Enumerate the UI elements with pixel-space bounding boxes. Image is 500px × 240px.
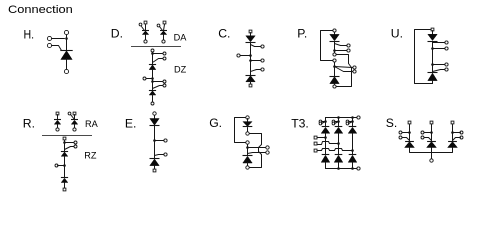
wire T3 branch2 c1 lead — [335, 121, 339, 123]
wire DZ node3 to R3 — [153, 81, 163, 83]
diode E D2 (cathode up) — [150, 158, 160, 160]
wire C bottom lead — [250, 82, 252, 84]
wire DZ left to node2 — [147, 78, 153, 80]
wire DZ node1 to R1 — [153, 53, 163, 55]
terminal DZ right-1 — [163, 52, 166, 55]
diode T3 top-1 (cathode up) — [322, 126, 330, 128]
separator line R — [42, 135, 92, 137]
wire S1 side-2 lead — [403, 138, 410, 141]
wire RZ node1 to R1 — [65, 142, 74, 144]
wire P top lead — [334, 33, 336, 35]
diode RZ1 (cathode up) — [61, 151, 68, 153]
terminal T3 bottom-right — [357, 167, 360, 170]
terminal DZ right-3 — [163, 80, 166, 83]
diode DZ1 (cathode up) — [149, 64, 156, 66]
terminal S2 top — [430, 121, 433, 124]
wire U node2 to right-3 — [433, 64, 446, 66]
wire S2 side-1 lead — [425, 132, 432, 134]
diode RA2 (cathode up) — [71, 119, 78, 121]
node DZ-1 — [151, 52, 154, 55]
wire T3 branch3 upper — [352, 118, 354, 127]
terminal C right-1 — [261, 45, 264, 48]
terminal RZ bottom — [63, 188, 66, 191]
wire T3 ac3 to branch3 (hops over branch1,2) — [318, 149, 353, 151]
svg-text:DA: DA — [174, 32, 188, 42]
node C-2 — [249, 59, 252, 62]
terminal P right-1 — [347, 44, 350, 47]
node U-2 — [431, 63, 434, 66]
wire DA1 diag lead — [142, 27, 145, 31]
wire P node2 to right-3 — [335, 67, 353, 68]
wire T3 top rail — [326, 117, 357, 119]
wire DA1 anode lead — [145, 35, 147, 41]
node T3 rail-b3 — [351, 116, 354, 119]
node DZ-2 — [151, 77, 154, 80]
terminal DA2 top — [163, 21, 166, 24]
wire H left-2 to cathode bar — [52, 46, 62, 51]
diode P D1 (cathode down) — [330, 34, 339, 40]
node P-1 — [333, 49, 336, 52]
wire S1 upper — [409, 125, 411, 141]
svg-text:C.: C. — [218, 27, 230, 41]
terminal T3 top-right — [357, 116, 360, 119]
wire U top lead — [432, 31, 434, 35]
wire P anode lead — [334, 84, 336, 85]
node S1 — [408, 131, 411, 134]
wire U left bracket — [415, 30, 433, 84]
svg-text:E.: E. — [125, 116, 137, 130]
wire RA2 diag lead — [71, 115, 75, 120]
terminal T3 branch1 c1 — [319, 120, 322, 123]
terminal P mid-1 — [333, 53, 336, 56]
wire G left bracket — [235, 118, 246, 143]
wire T3 branch2 upper — [338, 118, 340, 127]
node H junction — [65, 37, 68, 40]
node E-1 — [153, 139, 156, 142]
wire C to right-1 — [251, 45, 261, 47]
terminal RA1 top — [56, 112, 59, 115]
diode RZ2 (cathode up) — [61, 177, 68, 179]
terminal RA2 top — [73, 112, 76, 115]
wire DA1 top lead — [145, 25, 147, 31]
wire G lower segment — [247, 145, 249, 156]
svg-text:RZ: RZ — [84, 151, 97, 161]
wire C bar2 to right-3 — [251, 70, 261, 72]
wire C node2 to right-2 — [251, 60, 261, 62]
wire H vertical top — [66, 35, 68, 51]
terminal U top — [431, 28, 434, 31]
terminal S3 side-2 — [460, 136, 463, 139]
node T3 rail2-b3 — [351, 167, 354, 170]
wire H anode to bottom — [66, 59, 68, 70]
svg-text:U.: U. — [391, 27, 403, 41]
terminal DA1 diag — [139, 23, 142, 26]
diode G D2 (cathode up) — [243, 155, 253, 157]
terminal C right-3 — [261, 68, 264, 71]
wire E node to right-1 — [155, 140, 165, 142]
node T3 mid-3 — [351, 149, 354, 152]
terminal RZ top — [63, 137, 66, 140]
wire T3 ac2 to branch2 (hop over branch1) — [318, 142, 339, 145]
wire T3 ac1 to branch1 — [318, 137, 326, 139]
terminal U right-1 — [445, 41, 448, 44]
terminal S2 side-2 — [421, 136, 424, 139]
wire U node1 to right-2 — [433, 48, 446, 50]
terminal G mid-2 — [246, 141, 249, 144]
diode P D2 (cathode up) — [330, 76, 340, 78]
wire RZ middle segment — [64, 157, 66, 178]
diode S3 (cathode up) — [448, 141, 457, 143]
wire S3 upper — [452, 125, 454, 141]
wire S2 upper — [431, 125, 433, 141]
terminal G right-1 — [266, 146, 269, 149]
wire U bottom lead — [432, 81, 434, 84]
terminal T3 ac-1 — [314, 136, 317, 139]
node T3 rail2-b2 — [337, 167, 340, 170]
terminal S1 side-1 — [399, 131, 402, 134]
terminal RZ left — [55, 164, 58, 167]
separator line D — [131, 46, 181, 48]
wire P left bracket — [321, 31, 333, 61]
wire DZ bar2 to R4 — [153, 86, 163, 89]
wire RA1 anode lead — [57, 125, 59, 129]
wire S3 lower — [452, 148, 454, 153]
wire G right bracket — [250, 134, 262, 168]
terminal T3 branch1 c2 — [319, 122, 322, 125]
terminal S2 side-1 — [421, 131, 424, 134]
wire E top lead — [154, 116, 156, 119]
terminal T3 ac-3 — [314, 149, 317, 152]
node T3 mid-2 — [337, 142, 340, 145]
terminal S3 top — [451, 121, 454, 124]
wire T3 bottom rail — [326, 168, 357, 170]
wire RA1 top lead — [57, 115, 59, 120]
svg-text:S.: S. — [386, 116, 398, 130]
wire RZ bar to R2 — [65, 147, 75, 150]
terminal DA1 bottom — [144, 40, 147, 43]
svg-text:RA: RA — [85, 119, 99, 129]
wire T3 branch3 c2 lead — [349, 122, 353, 124]
wire C left to node — [241, 55, 251, 57]
wire G top lead — [247, 119, 249, 122]
svg-text:D.: D. — [111, 27, 123, 41]
wire P node2 to right-4 — [335, 67, 353, 72]
diode S1 (cathode up) — [405, 141, 414, 143]
terminal U right-3 — [445, 63, 448, 66]
wire T3 branch2 middle — [338, 134, 340, 155]
node S3 — [451, 131, 454, 134]
wire P to right-1 — [335, 44, 348, 46]
terminal P right-3 — [353, 66, 356, 69]
wire DZ bottom segment — [152, 95, 154, 102]
terminal RZ right-1 — [74, 141, 77, 144]
diode T3 top-2 (cathode up) — [335, 126, 343, 128]
diode S2 (cathode up) — [427, 141, 436, 143]
terminal DZ right-2 — [163, 57, 166, 60]
wire G D1 cathode lead — [247, 128, 249, 132]
diode T3 bottom-2 (cathode up) — [335, 154, 343, 156]
node RZ-1 — [63, 141, 66, 144]
terminal H top — [64, 30, 68, 34]
wire S3 side-1 lead — [453, 132, 461, 134]
terminal RA2 diag — [68, 112, 71, 115]
svg-text:R.: R. — [23, 117, 35, 131]
wire T3 branch1 c1 lead — [322, 121, 326, 123]
wire S1 lower — [409, 148, 411, 153]
diode C D2 (cathode up) — [246, 75, 256, 77]
node T3 branch3 tap — [351, 120, 354, 123]
wire P node1 to right-2 — [335, 50, 348, 52]
diode C D1 (cathode down) — [246, 36, 255, 42]
node S2 — [430, 131, 433, 134]
terminal S1 side-2 — [399, 136, 402, 139]
diode G D1 (cathode down) — [243, 122, 252, 127]
terminal E bottom — [153, 169, 156, 172]
wire RZ bottom segment — [64, 183, 66, 189]
wire RZ left to node2 — [58, 165, 65, 167]
diode H D1 (cathode up) — [60, 50, 72, 52]
terminal RA1 bottom — [56, 128, 59, 131]
terminal P mid-2 — [333, 59, 336, 62]
terminal T3 branch2 c1 — [332, 120, 335, 123]
wire RA2 anode lead — [74, 125, 76, 129]
wire T3 branch3 c1 lead — [349, 121, 353, 123]
terminal P right-4 — [353, 70, 356, 73]
wire S2 lower — [431, 148, 433, 153]
wire T3 branch3 middle — [352, 134, 354, 155]
wire U to right-1 — [433, 42, 446, 44]
svg-text:H.: H. — [24, 27, 35, 41]
diode T3 top-3 (cathode up) — [349, 126, 357, 128]
wire RA2 top lead — [74, 115, 76, 120]
node T3 branch2 tap — [337, 120, 340, 123]
terminal E right-2 — [164, 153, 167, 156]
diode U D1 (cathode down) — [428, 34, 437, 40]
terminal T3 branch2 c2 — [332, 122, 335, 125]
wire T3 branch2 c2 lead — [335, 122, 339, 124]
terminal G top — [246, 116, 249, 119]
terminal DZ bottom — [151, 102, 154, 105]
wire P lower segment — [334, 63, 336, 77]
terminal C top — [249, 30, 252, 33]
terminal DZ right-4 — [163, 84, 166, 87]
wire E bar2 to right-2 — [155, 155, 165, 156]
wire DZ bar to R2 — [153, 59, 163, 63]
wire T3 branch1 c2 lead — [322, 122, 326, 124]
terminal C bottom — [249, 84, 252, 87]
terminal G right-2 — [266, 151, 269, 154]
wire S3 side-2 lead — [453, 138, 461, 141]
diode DA1 (cathode up) — [142, 30, 149, 32]
wire S1 side-1 lead — [403, 132, 410, 134]
svg-text:P.: P. — [297, 27, 307, 41]
node T3 rail-b2 — [337, 116, 340, 119]
wire U bar2 to right-4 — [433, 70, 446, 72]
wire DA2 top lead — [164, 25, 165, 31]
terminal G mid-1 — [246, 132, 249, 135]
wire T3 branch1 middle — [325, 134, 327, 155]
wire H left-1 to node — [52, 38, 65, 40]
wire G bar2 to right-2 — [248, 153, 266, 154]
terminal P right-2 — [347, 49, 350, 52]
node G-1 — [246, 146, 249, 149]
diode RA1 (cathode up) — [54, 119, 61, 121]
terminal H left-1 — [47, 36, 51, 40]
node P-2 — [333, 65, 336, 68]
wire S2 side-2 lead — [425, 138, 432, 141]
wire DA2 diag lead — [160, 27, 163, 31]
terminal T3 ac-2 — [314, 142, 317, 145]
svg-text:DZ: DZ — [174, 64, 187, 74]
wire DZ middle segment — [152, 70, 154, 91]
wire C center segment — [250, 43, 252, 76]
wire S bottom rail — [410, 152, 453, 154]
terminal H bottom — [64, 69, 68, 73]
terminal P bottom — [333, 85, 336, 88]
terminal E right-1 — [164, 139, 167, 142]
terminal H left-2 — [47, 43, 51, 47]
terminal U right-2 — [445, 47, 448, 50]
wire G anode lead — [247, 163, 249, 167]
terminal RA2 bottom — [73, 128, 76, 131]
terminal E top — [153, 112, 156, 115]
wire DA2 anode lead — [163, 35, 165, 41]
wire P right bracket — [337, 55, 352, 87]
terminal S bottom — [430, 159, 433, 162]
node DZ-3 — [151, 80, 154, 83]
node T3 mid-1 — [324, 136, 327, 139]
terminal C right-2 — [261, 59, 264, 62]
node U-1 — [431, 47, 434, 50]
diode U D2 (cathode up) — [428, 72, 438, 74]
wire E center segment — [154, 126, 156, 159]
node T3 branch1 tap — [324, 120, 327, 123]
diode DZ2 (cathode up) — [149, 90, 156, 92]
terminal DA1 top — [144, 21, 147, 24]
wire E bottom lead — [154, 166, 156, 169]
terminal DA2 bottom — [162, 40, 165, 43]
terminal S3 side-1 — [460, 131, 463, 134]
wire T3 branch1 lower — [325, 163, 327, 169]
wire C top lead — [250, 33, 252, 36]
wire S center stub — [431, 153, 433, 160]
diode T3 bottom-3 (cathode up) — [349, 154, 357, 156]
terminal G bottom — [246, 166, 249, 169]
node C-1 — [249, 54, 252, 57]
terminal DA2 diag — [157, 24, 160, 27]
terminal C left — [237, 54, 240, 57]
wire T3 branch3 lower — [352, 163, 354, 169]
diode E D1 (cathode down) — [150, 119, 159, 126]
wire U center segment — [432, 42, 434, 73]
terminal DZ left — [143, 77, 146, 80]
terminal U right-4 — [445, 68, 448, 71]
svg-text:Connection: Connection — [8, 4, 73, 16]
wire T3 branch1 upper — [325, 118, 327, 127]
terminal S1 top — [408, 121, 411, 124]
wire G node to right-1 — [248, 147, 266, 149]
svg-text:T3.: T3. — [291, 116, 309, 130]
terminal T3 branch3 c1 — [346, 120, 349, 123]
svg-text:G.: G. — [209, 116, 222, 130]
diode DA2 (cathode up) — [160, 30, 167, 32]
terminal DZ top — [151, 49, 154, 52]
terminal P top — [333, 29, 336, 32]
terminal T3 branch3 c2 — [346, 122, 349, 125]
terminal RZ right-2 — [74, 145, 77, 148]
wire P upper segment — [334, 42, 336, 54]
wire T3 branch2 lower — [338, 163, 340, 169]
wire DZ top segment — [152, 53, 154, 65]
diode T3 bottom-1 (cathode up) — [322, 154, 330, 156]
wire RZ top segment — [64, 141, 66, 152]
node RZ-2 — [63, 164, 66, 167]
